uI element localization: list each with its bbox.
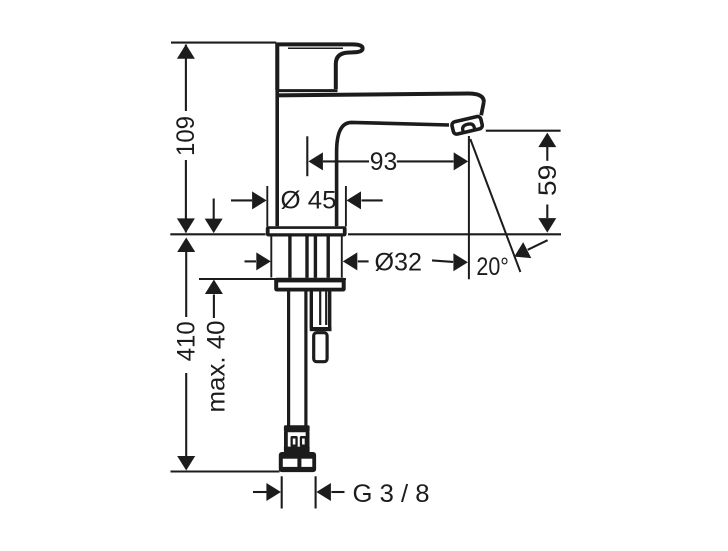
svg-text:20°: 20° [476,253,509,281]
svg-text:109: 109 [172,116,200,156]
svg-text:93: 93 [370,148,398,176]
svg-text:Ø32: Ø32 [375,248,423,276]
svg-text:G 3 / 8: G 3 / 8 [353,480,430,508]
svg-text:max. 40: max. 40 [203,321,231,413]
svg-text:410: 410 [172,321,200,361]
svg-text:59: 59 [534,165,562,197]
svg-text:Ø 45: Ø 45 [281,186,337,214]
